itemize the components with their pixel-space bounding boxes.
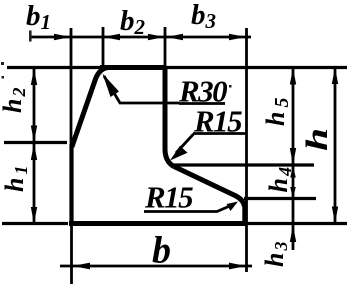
arrow h5 bottom <box>290 148 296 165</box>
svg-text:b2: b2 <box>120 5 146 39</box>
R15 lower label underline and leader <box>144 205 232 212</box>
arrow b1 left outside <box>54 34 71 40</box>
speck left edge 1 <box>1 62 4 65</box>
h5/h4 boundary extension line y=165 <box>170 163 314 166</box>
svg-text:R15: R15 <box>144 180 193 215</box>
h4/h3 boundary extension line y=199 <box>244 197 316 200</box>
h2/h1 boundary extension line y=142 <box>4 141 67 144</box>
arrow h4 top <box>290 166 296 178</box>
R15 upper leader line <box>176 134 194 153</box>
arrow b2 right inside <box>148 34 165 40</box>
svg-text:h: h <box>299 128 334 151</box>
arrow h5 top <box>290 68 296 85</box>
arrow b3 right inside <box>229 34 246 40</box>
bottom extension line y=223.5 thin left part <box>2 222 68 225</box>
arrow R15 lower leader <box>227 202 239 212</box>
svg-text:h1: h1 <box>0 163 31 192</box>
arrow b left <box>73 263 91 270</box>
arrow h2 top <box>31 69 37 86</box>
svg-text:b3: b3 <box>191 0 216 33</box>
right extension line x=246.5 <box>245 28 248 272</box>
arrow h1 top <box>31 144 37 161</box>
profile thick top flat <box>100 65 165 70</box>
R15 upper label underline <box>193 132 246 135</box>
profile bottom flat <box>69 221 246 226</box>
bottom extension line y=223.5 thin right part <box>246 222 347 225</box>
arrow h2 bottom <box>31 126 37 143</box>
arrow at x=103 pointing left <box>103 34 120 40</box>
svg-text:b1: b1 <box>26 0 50 34</box>
arrow h bottom <box>332 207 338 224</box>
arrow b right <box>229 263 246 270</box>
top extension line y=67 thin right part <box>165 66 347 69</box>
svg-text:h2: h2 <box>0 86 29 113</box>
dimension line x=34 for h2 h1 <box>33 68 36 224</box>
profile left inclined face with R30 fillet <box>72 68 108 148</box>
arrow h top <box>332 68 338 85</box>
extension line x=103 apex <box>102 27 105 67</box>
svg-text:h5: h5 <box>261 94 293 126</box>
arrow h4 bottom <box>290 187 296 199</box>
svg-text:R15: R15 <box>193 104 242 139</box>
arrow R30 leader <box>103 74 120 98</box>
profile right vertical web <box>165 66 174 167</box>
top extension/outline line y=67 thin left part <box>7 66 103 69</box>
left extension line x=71 above profile <box>70 28 73 145</box>
arrow h3 bottom <box>290 226 296 243</box>
R30 leader line <box>104 76 179 103</box>
svg-text:h4: h4 <box>264 165 295 192</box>
bottom dimension line y=266 for b <box>60 265 252 268</box>
tick at start of top dimension line <box>29 31 32 42</box>
extension line x=165 above profile <box>164 27 167 66</box>
R30 label underline <box>179 102 225 105</box>
svg-text:b: b <box>152 230 171 272</box>
speck near R30 <box>229 85 232 88</box>
arrow h1 bottom <box>31 207 37 224</box>
profile lower inclined face with R15 fillets <box>174 167 245 225</box>
arrow R15 upper leader <box>170 146 188 161</box>
arrow b3 left inside <box>166 34 183 40</box>
svg-text:h3: h3 <box>260 240 291 267</box>
dimension line x=335 for h <box>334 67 337 223</box>
top dimension line y=37 for b1 b2 b3 <box>29 36 251 39</box>
left extension line x=71 below profile <box>70 225 73 284</box>
dimension line x=293 for h5 h4 h3 <box>292 68 295 251</box>
speck left edge 2 <box>2 76 5 79</box>
profile left vertical side <box>69 144 73 225</box>
